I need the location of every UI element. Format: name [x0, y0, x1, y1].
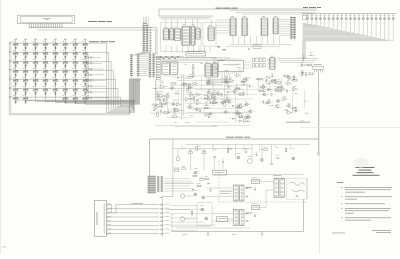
resistor R5	[213, 102, 217, 104]
op-amp U318	[229, 79, 233, 82]
diode CR26	[302, 72, 304, 74]
capacitor C8	[209, 100, 211, 102]
diode CR43	[277, 157, 279, 159]
resistor R43	[196, 147, 198, 151]
key switch S56 with diode D56	[83, 98, 87, 100]
transistor Q43	[292, 157, 295, 160]
ground symbol GND2	[261, 232, 263, 235]
resistor R118	[301, 72, 303, 76]
capacitor C28	[305, 73, 307, 75]
capacitor C53	[254, 215, 256, 217]
diode CR41	[271, 163, 273, 165]
key switch S20 with diode D20	[44, 62, 48, 64]
transistor Q21	[208, 91, 211, 94]
transistor Q6	[209, 112, 212, 115]
wire power left drop	[149, 139, 151, 176]
capacitor C23	[236, 86, 238, 88]
rectifier diode CR52	[246, 196, 248, 198]
diode CR5	[163, 100, 165, 102]
wire bundle U17 to U20	[158, 57, 228, 59]
connector J10 box	[95, 200, 107, 236]
ground symbol GND1	[207, 232, 209, 235]
capacitor C9	[208, 115, 210, 117]
resistor R13	[160, 103, 162, 107]
key switch S13 with diode D13	[53, 53, 57, 55]
wire keypad cable	[108, 205, 159, 213]
key switch S49 with diode D49	[14, 98, 18, 100]
watermark smudge	[354, 158, 369, 168]
capacitor C20	[249, 85, 251, 87]
diode CR12	[268, 88, 270, 90]
rectifier diode CR54	[246, 220, 248, 222]
resistor R2	[153, 104, 157, 106]
resistor R14	[193, 97, 195, 101]
key switch S55 with diode D55	[73, 98, 77, 100]
transformer T1 upper winding	[234, 185, 245, 201]
transistor Q42	[195, 171, 198, 174]
wire long run B	[150, 112, 252, 114]
diode CR42	[245, 151, 247, 153]
key switch S12 with diode D12	[44, 53, 48, 55]
wire display data bus	[29, 27, 157, 29]
diode CR16	[243, 84, 245, 86]
resistor R10	[258, 78, 262, 80]
resistor R12	[157, 96, 159, 100]
diode CR20	[227, 91, 229, 93]
IC U14	[191, 26, 194, 45]
display board label	[88, 21, 97, 22]
capacitor C10	[221, 94, 223, 96]
op-amp U36	[214, 101, 218, 104]
resistor R41	[202, 152, 206, 154]
key switch S34 with diode D34	[24, 80, 28, 82]
resistor R31	[175, 110, 179, 112]
page margin mark	[3, 246, 7, 249]
connector P2	[157, 176, 159, 193]
wire power mesh top	[173, 148, 252, 150]
capacitor C54	[210, 189, 212, 191]
resistor R51	[200, 179, 204, 181]
LCD module part number label	[43, 17, 52, 20]
enclosure box around U10-U15	[161, 23, 201, 52]
resistor R53	[197, 185, 201, 187]
wire bus risers below ICs	[165, 46, 167, 54]
key switch S43 with diode D43	[34, 89, 38, 91]
key switch S19 with diode D19	[34, 62, 38, 64]
resistor R7	[239, 116, 243, 118]
key switch S48 with diode D48	[83, 89, 87, 91]
transistor Q3	[221, 101, 224, 104]
diode CR3	[159, 99, 161, 101]
transistor Q26	[196, 108, 199, 111]
transistor Q24	[171, 87, 174, 90]
IC U10	[164, 29, 168, 40]
power board top rail	[150, 138, 319, 140]
transistor Q2	[172, 103, 175, 106]
diode CR8	[205, 104, 207, 106]
resistor row above connectors	[160, 56, 162, 57]
wire links U21-U22-RP-U23	[213, 58, 218, 60]
capacitor C27	[295, 110, 297, 112]
capacitor C14	[286, 89, 288, 91]
notes paragraphs	[341, 186, 342, 189]
resistor R110	[240, 105, 242, 109]
resistor R23	[183, 83, 187, 85]
diode CR9	[247, 121, 249, 123]
misc logic parts	[253, 45, 261, 49]
capacitor C31	[160, 110, 162, 112]
resistor R15	[197, 101, 199, 105]
key switch S37 with diode D37	[53, 80, 57, 82]
wire vertical bundle mid	[181, 74, 183, 120]
notes heading	[337, 181, 344, 184]
diode CR55	[192, 189, 194, 191]
key switch S5 with diode D5	[53, 44, 57, 46]
diode CR11	[232, 118, 234, 120]
transistor Q23	[233, 90, 236, 93]
capacitor C17	[274, 88, 276, 90]
diode CR50	[208, 183, 210, 185]
key switch S39 with diode D39	[73, 80, 77, 82]
IC U2	[242, 18, 247, 36]
resistor R20	[241, 81, 245, 83]
IC U16	[208, 27, 214, 41]
resistor R115	[187, 88, 189, 92]
page boundary horizontal	[300, 127, 400, 129]
connector J11 keyboard cable	[130, 54, 132, 78]
op-amp U316	[236, 74, 240, 77]
capacitor C32	[199, 109, 201, 111]
key switch S4 with diode D4	[44, 44, 48, 46]
transistor Q11	[237, 106, 240, 109]
transistor Q14	[249, 110, 252, 113]
transistor Q9	[225, 111, 228, 114]
wire J1 to power circuits	[170, 205, 198, 207]
resistor R24	[188, 77, 192, 79]
IC U18	[171, 62, 178, 75]
resistor R12	[261, 86, 265, 88]
misc reference labels	[180, 110, 184, 113]
enclosure box around U16	[203, 23, 216, 46]
IC U17	[162, 62, 169, 75]
dash-dot AC boundary	[218, 160, 220, 202]
wire bus above ICs	[159, 15, 213, 17]
key switch S26 with diode D26	[24, 71, 28, 73]
resistor R19	[244, 118, 246, 122]
transistor Q53	[205, 217, 208, 220]
key switch S9 with diode D9	[14, 53, 18, 55]
resistor R119	[157, 113, 159, 117]
transistor Q50	[194, 193, 197, 196]
key switch S14 with diode D14	[63, 53, 67, 55]
key switch S32 with diode D32	[83, 71, 87, 73]
capacitor C25	[227, 84, 229, 86]
wire analog interconnect	[164, 75, 204, 77]
resistor R14	[277, 82, 281, 84]
wire keyboard row lines	[12, 42, 89, 44]
wire keyboard row bus (nested)	[89, 43, 135, 112]
capacitor C4	[168, 110, 170, 112]
capacitor C3	[165, 101, 167, 103]
wires J11 to J12	[140, 56, 149, 58]
key switch S46 with diode D46	[63, 89, 67, 91]
capacitor C51	[180, 217, 184, 221]
resistor R18	[243, 80, 247, 82]
key switch S7 with diode D7	[73, 44, 77, 46]
diode CR10 on drop	[318, 152, 320, 154]
resistor R17	[211, 95, 213, 99]
wire nested loops under U22	[206, 74, 222, 84]
note line mid-right	[286, 121, 310, 124]
resistor R8	[246, 116, 250, 118]
key switch S22 with diode D22	[63, 62, 67, 64]
wire bottom links	[169, 224, 216, 226]
IC U4	[274, 18, 278, 34]
IC U21	[213, 64, 218, 78]
cable label	[132, 202, 144, 205]
diode CR18	[237, 87, 239, 89]
capacitor C41	[222, 161, 224, 163]
power board label	[226, 136, 234, 139]
op-amp U310	[236, 111, 240, 114]
transistor Q5	[213, 96, 216, 99]
transistor Q19	[268, 101, 271, 104]
key switch S29 with diode D29	[53, 71, 57, 73]
resistor R19	[236, 88, 240, 90]
key switch S10 with diode D10	[24, 53, 28, 55]
diode CR7	[204, 97, 206, 99]
regulator VR2 box	[217, 217, 228, 222]
key switch S42 with diode D42	[24, 89, 28, 91]
capacitor C40	[176, 157, 180, 161]
connector J10 label	[96, 212, 99, 225]
key switch S31 with diode D31	[73, 71, 77, 73]
wire IC row verticals	[232, 36, 234, 45]
resistor R21	[240, 94, 244, 96]
resistor R42	[182, 168, 186, 170]
page boundary vertical	[319, 92, 321, 254]
wire power bottom rail	[172, 231, 304, 233]
connector J10 pins	[107, 204, 109, 206]
wire top feed	[159, 9, 317, 16]
connector P3	[161, 176, 163, 193]
transistor Q13	[236, 112, 239, 115]
diode CR22	[295, 110, 297, 112]
transistor Q51	[202, 196, 205, 199]
potentiometer VR10	[175, 168, 179, 171]
key switch S36 with diode D36	[44, 80, 48, 82]
diode CR40	[214, 156, 216, 158]
capacitor C5	[157, 93, 159, 95]
resistor R29	[308, 64, 312, 66]
capacitor C26	[275, 104, 277, 106]
diode CR24	[285, 109, 287, 111]
resistor R45	[264, 149, 268, 151]
key switch S27 with diode D27	[34, 71, 38, 73]
driver enclosure box	[197, 203, 212, 226]
key switch S50 with diode D50	[24, 98, 28, 100]
resistor R52	[191, 211, 193, 215]
resistor R114	[225, 77, 227, 81]
key switch S21 with diode D21	[53, 62, 57, 64]
transistor Q22	[207, 82, 210, 85]
op-amp U33	[155, 106, 159, 109]
resistor R9	[277, 88, 281, 90]
key switch S17 with diode D17	[14, 62, 18, 64]
resistor R15	[293, 80, 297, 82]
rectifier diode CR53	[246, 213, 248, 215]
IC U11	[170, 29, 174, 40]
regulator U40	[252, 180, 260, 184]
transistor Q1	[189, 106, 192, 109]
op-amp U31	[190, 93, 194, 96]
op-amp U317	[214, 92, 218, 95]
transistor Q17	[271, 80, 274, 83]
key switch S6 with diode D6	[63, 44, 67, 46]
op-amp U320	[288, 111, 292, 114]
transistor Q8	[224, 100, 227, 103]
wire mid bus	[152, 57, 216, 59]
key switch S24 with diode D24	[83, 62, 87, 64]
resistor R26	[193, 83, 197, 85]
wire keyboard column lines	[15, 40, 17, 99]
connector J12 display cable	[149, 53, 151, 79]
wire U16 to U1 links	[215, 19, 230, 21]
op-amp U37	[205, 113, 209, 116]
transistor Q12	[245, 103, 248, 106]
key switch S35 with diode D35	[34, 80, 38, 82]
op-amp U39	[239, 105, 243, 108]
diode CR17	[268, 83, 270, 85]
resistor column R60-R62	[193, 65, 195, 68]
resistor R18	[240, 114, 242, 118]
key switch S16 with diode D16	[83, 53, 87, 55]
resistor R22	[225, 81, 229, 83]
transistor Q15	[277, 100, 280, 103]
wire fan to address bus	[132, 52, 145, 56]
resistor R6	[204, 107, 208, 109]
resistor R30	[173, 116, 177, 118]
key switch S25 with diode D25	[14, 71, 18, 73]
resistor R46	[285, 148, 287, 152]
transistor Q16	[288, 76, 291, 79]
IC U15	[196, 29, 200, 40]
capacitor C13	[262, 101, 264, 103]
resistor R17	[260, 90, 264, 92]
wire long run C	[155, 125, 250, 127]
resistor R11	[276, 90, 280, 92]
keyboard board label	[89, 41, 99, 42]
diode CR21	[177, 77, 179, 79]
key switch S11 with diode D11	[34, 53, 38, 55]
diode CR15	[256, 78, 258, 80]
wire display bus drop	[156, 28, 158, 55]
capacitor C16	[274, 78, 276, 80]
op-amp U32	[177, 103, 181, 106]
capacitor C19	[242, 91, 244, 93]
key switch S15 with diode D15	[73, 53, 77, 55]
capacitor C30	[303, 56, 305, 58]
op-amp U311	[287, 82, 291, 85]
op-amp U312	[283, 97, 287, 100]
transistor Q52	[201, 208, 204, 211]
op-amp U313	[293, 87, 297, 90]
capacitor C1	[153, 109, 155, 111]
resistor R16	[224, 103, 226, 107]
transistor Q41	[261, 159, 264, 162]
LED rail end connector	[302, 15, 307, 19]
wire keyboard column bus (nested)	[16, 79, 135, 101]
transistor Q25	[288, 105, 291, 108]
capacitor C12	[265, 80, 267, 82]
keyboard row terminals	[9, 41, 11, 44]
key switch S28 with diode D28	[44, 71, 48, 73]
key switch S23 with diode D23	[73, 62, 77, 64]
transistor Q20	[225, 81, 228, 84]
resistor network RP2	[252, 64, 255, 67]
key switch S30 with diode D30	[63, 71, 67, 73]
connector J15	[143, 25, 145, 53]
key switch S45 with diode D45	[53, 89, 57, 91]
capacitor C21	[246, 77, 248, 79]
capacitor C29	[301, 64, 303, 66]
LED bus pads	[301, 63, 303, 66]
key switch S33 with diode D33	[14, 80, 18, 82]
wire long run A	[152, 88, 230, 90]
AC plug dashed enclosure	[286, 178, 307, 199]
resistor R112	[262, 85, 264, 89]
resistor R3	[164, 112, 168, 114]
key switch S18 with diode D18	[24, 62, 28, 64]
diode CR19	[207, 83, 209, 85]
connector J2 to LED board	[290, 17, 292, 41]
diode CR6	[227, 99, 229, 101]
key switch S3 with diode D3	[34, 44, 38, 46]
copyright line	[372, 229, 391, 232]
wire extra key links	[92, 57, 101, 59]
IC U1	[231, 18, 236, 36]
connector J1 pins	[161, 199, 163, 237]
notes title block	[356, 166, 375, 169]
capacitor C15	[267, 88, 269, 90]
key switch S40 with diode D40	[83, 80, 87, 82]
AC cord	[290, 182, 305, 185]
wire power mesh drops	[181, 145, 183, 151]
resistor R28	[309, 73, 313, 75]
resistor network RP1	[252, 58, 255, 61]
key switch S54 with diode D54	[63, 98, 67, 100]
wire IC row to J2	[279, 19, 290, 21]
wire LED bus down	[302, 41, 304, 64]
IC U3	[262, 18, 268, 36]
key switch S44 with diode D44	[44, 89, 48, 91]
IC U20	[205, 64, 211, 78]
wire LED board rail	[302, 12, 396, 14]
LED board label	[303, 7, 308, 8]
capacitor C24	[208, 80, 210, 82]
diode CR25	[310, 55, 312, 57]
op-amp U38	[217, 92, 221, 95]
wire J1 top link	[162, 139, 173, 199]
resistor R16	[284, 75, 288, 77]
resistor R117	[183, 83, 185, 87]
regulator U41	[252, 206, 260, 210]
connector label J15	[143, 23, 147, 24]
wire transformer links	[206, 187, 234, 189]
transistor Q7	[228, 101, 231, 104]
bottom labels	[182, 234, 187, 237]
IC U12	[175, 28, 180, 40]
